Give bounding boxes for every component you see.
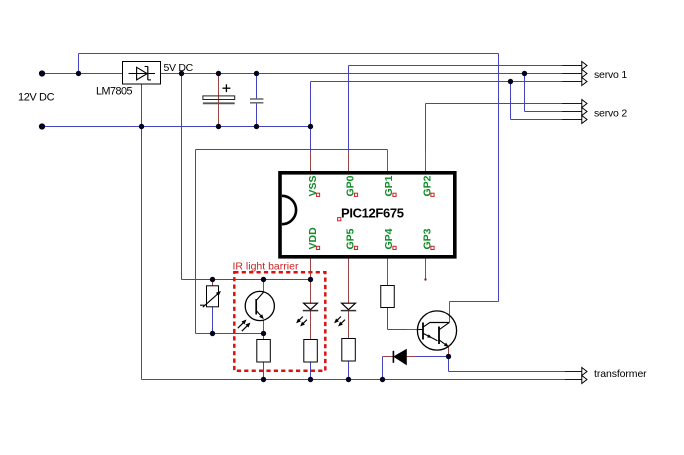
svg-text:transformer: transformer	[594, 368, 647, 380]
svg-text:12V DC: 12V DC	[18, 92, 55, 104]
svg-text:IR light barrier: IR light barrier	[233, 261, 299, 273]
svg-text:PIC12F675: PIC12F675	[341, 206, 404, 221]
svg-text:servo 2: servo 2	[594, 108, 627, 120]
svg-text:LM7805: LM7805	[96, 86, 133, 98]
svg-text:servo 1: servo 1	[594, 69, 627, 81]
svg-text:5V DC: 5V DC	[164, 62, 194, 74]
